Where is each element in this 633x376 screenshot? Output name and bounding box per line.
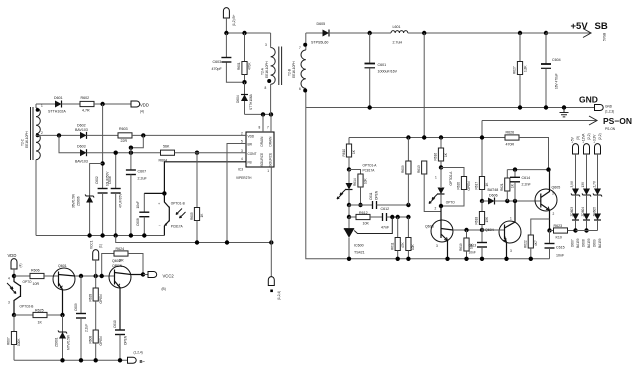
svg-text:2: 2 [553, 212, 555, 216]
resistor R621 [500, 170, 515, 201]
svg-text:R608: R608 [88, 336, 92, 344]
node [396, 215, 400, 219]
node [422, 135, 426, 139]
svg-text:1: 1 [435, 176, 437, 180]
svg-text:VDD: VDD [140, 103, 149, 108]
resistor R617 [475, 177, 490, 202]
svg-text:10K: 10K [363, 222, 370, 226]
node [573, 228, 577, 232]
zener ZD603 [570, 180, 580, 216]
opto OPTO1-B phototransistor [158, 193, 186, 235]
diode D609 [592, 214, 602, 249]
diode D604 [236, 82, 253, 114]
svg-text:OPEN: OPEN [99, 336, 103, 346]
svg-text:D605: D605 [317, 22, 326, 26]
svg-text:VDD: VDD [248, 134, 255, 138]
node [445, 257, 449, 261]
connector GND (1,2,3) [579, 95, 614, 114]
resistor R611 [390, 217, 404, 259]
svg-text:L601: L601 [393, 25, 401, 29]
svg-text:R614: R614 [353, 178, 357, 186]
svg-text:Q605: Q605 [552, 186, 561, 190]
svg-text:C606: C606 [108, 176, 112, 184]
svg-text:C610: C610 [113, 320, 117, 328]
svg-text:OPTO: OPTO [23, 280, 32, 284]
svg-text:1: 1 [267, 169, 269, 173]
resistor R622 [523, 219, 549, 259]
svg-text:GND: GND [579, 95, 598, 105]
node [347, 167, 351, 171]
resistor R628 [88, 276, 103, 330]
node [141, 133, 145, 137]
wire secondary GND rail [306, 107, 594, 109]
svg-text:R624: R624 [116, 247, 125, 251]
node [195, 151, 199, 155]
transistor Q603 [425, 206, 453, 259]
node [100, 102, 104, 106]
svg-text:4,7R: 4,7R [82, 109, 90, 113]
svg-text:R628: R628 [88, 294, 92, 302]
connector VCC2 [143, 272, 174, 292]
transistor Q601 [53, 264, 75, 315]
svg-text:5VSB: 5VSB [603, 33, 607, 41]
node [464, 257, 468, 261]
svg-text:FB: FB [248, 160, 252, 164]
svg-text:R618: R618 [475, 217, 479, 225]
svg-text:D606: D606 [489, 194, 498, 198]
svg-text:4: 4 [241, 157, 243, 161]
svg-text:2.2uF: 2.2uF [85, 324, 89, 332]
svg-text:8: 8 [265, 86, 267, 90]
wire B+ rail [226, 32, 270, 34]
node [129, 151, 133, 155]
svg-text:R620: R620 [457, 182, 461, 190]
svg-text:10nF: 10nF [469, 251, 476, 255]
resistor R619 [459, 230, 474, 259]
svg-text:VIPER27H: VIPER27H [236, 176, 252, 180]
node [225, 240, 229, 244]
node [544, 105, 548, 109]
svg-text:VCC2: VCC2 [163, 274, 175, 279]
svg-text:36V/0.5W: 36V/0.5W [72, 194, 76, 208]
node [439, 165, 443, 169]
node [518, 31, 522, 35]
node [390, 215, 394, 219]
node [480, 257, 484, 261]
node [562, 105, 566, 109]
resistor R626 [505, 131, 549, 170]
node [480, 135, 484, 139]
svg-text:R607: R607 [7, 337, 11, 345]
node [242, 80, 246, 84]
resistor R608 [88, 330, 103, 360]
svg-text:+12VA: +12VA [581, 133, 585, 143]
node [368, 31, 372, 35]
node [368, 105, 372, 109]
wire IC3 source pin1 down to connector [270, 167, 272, 277]
node [513, 167, 517, 171]
svg-text:(1): (1) [99, 244, 103, 248]
node [584, 228, 588, 232]
node FB [162, 191, 166, 195]
svg-text:R626: R626 [506, 131, 515, 135]
connector VDD (4) [131, 101, 149, 114]
capacitor C612 series [381, 207, 409, 230]
svg-text:(B): (B) [162, 287, 166, 291]
diode D603 [59, 135, 161, 163]
svg-text:BAV103: BAV103 [75, 160, 88, 164]
svg-text:D604: D604 [236, 95, 240, 103]
node [406, 257, 410, 261]
svg-text:D608: D608 [581, 239, 585, 247]
wire zener bottoms row [576, 230, 598, 232]
transformer core [279, 47, 282, 86]
resistor R627 [513, 33, 528, 108]
node [269, 112, 273, 116]
diode D607 [570, 214, 580, 249]
capacitor C614 [510, 170, 531, 201]
svg-text:GND: GND [605, 105, 613, 109]
node [406, 215, 410, 219]
resistor R609 divider top [401, 138, 411, 206]
node [529, 257, 533, 261]
node [406, 203, 410, 207]
svg-text:15K: 15K [485, 216, 489, 223]
svg-text:5: 5 [241, 140, 243, 144]
svg-text:100K: 100K [17, 338, 21, 346]
connector VDD (4) lower [8, 253, 23, 276]
svg-text:47nF: 47nF [381, 226, 390, 230]
opto OPTO2-B phototransistor [7, 276, 33, 315]
node [57, 133, 61, 137]
resistor R624 [102, 247, 143, 276]
opto OPTO1-A LED [337, 164, 377, 206]
svg-text:R625: R625 [35, 309, 44, 313]
node [358, 203, 362, 207]
svg-text:EE16-10PH: EE16-10PH [292, 60, 296, 78]
node [60, 313, 64, 317]
svg-text:470pF: 470pF [212, 67, 223, 71]
svg-text:BA159: BA159 [587, 238, 591, 248]
svg-text:C608: C608 [136, 218, 140, 226]
transformer T2-A primary [261, 33, 276, 114]
node [269, 240, 273, 244]
svg-text:R609: R609 [401, 165, 405, 173]
svg-text:SOURCE: SOURCE [260, 153, 264, 167]
svg-text:R602: R602 [81, 96, 90, 100]
svg-text:R610: R610 [342, 149, 346, 157]
wire pin2 row [36, 134, 80, 136]
wire upper bus [507, 169, 548, 171]
svg-text:K10: K10 [556, 236, 562, 240]
svg-text:D603: D603 [77, 145, 86, 149]
capacitor C609 [74, 276, 89, 360]
svg-text:IC3: IC3 [238, 168, 243, 172]
svg-text:Q604: Q604 [485, 228, 494, 232]
svg-text:(2,2): (2,2) [587, 133, 591, 140]
svg-text:10K: 10K [411, 243, 415, 250]
svg-text:R605: R605 [190, 212, 194, 220]
svg-text:R601: R601 [237, 62, 241, 70]
svg-text:OPEN: OPEN [99, 294, 103, 304]
svg-text:D601: D601 [54, 96, 63, 100]
zener chain +12VA [581, 133, 591, 189]
node [114, 233, 118, 237]
svg-text:7: 7 [267, 126, 269, 130]
resistor R623 [550, 224, 576, 240]
svg-text:M7V/0.5W: M7V/0.5W [67, 335, 71, 350]
svg-text:C615: C615 [556, 246, 565, 250]
resistor R620 OPEN [441, 168, 471, 207]
wire row to Q602 [75, 275, 115, 277]
wire rail1 primary ground [36, 235, 164, 237]
svg-text:PC817A: PC817A [171, 224, 184, 228]
svg-text:C607: C607 [138, 170, 147, 174]
resistor R606 [14, 269, 59, 287]
node [79, 274, 83, 278]
svg-text:(4): (4) [140, 110, 144, 114]
svg-text:13V: 13V [581, 181, 585, 188]
svg-text:1,8K: 1,8K [524, 65, 528, 72]
svg-text:SB: SB [595, 21, 608, 32]
svg-text:PS-ON: PS-ON [605, 127, 616, 131]
svg-text:STTH106A: STTH106A [249, 93, 253, 110]
svg-text:BR: BR [248, 143, 253, 147]
svg-text:R612: R612 [359, 211, 368, 215]
svg-text:(4): (4) [19, 264, 23, 268]
svg-text:47K: 47K [401, 241, 405, 248]
node [79, 358, 83, 362]
zener chain +3,3V [592, 133, 602, 188]
wire BR pin down [227, 144, 246, 243]
svg-text:EE16-10PH: EE16-10PH [265, 60, 269, 78]
svg-text:DRAIN: DRAIN [260, 136, 264, 147]
svg-text:3: 3 [552, 192, 554, 196]
svg-text:R603: R603 [119, 127, 128, 131]
svg-text:10K: 10K [364, 177, 368, 184]
svg-text:10R: 10R [33, 282, 40, 286]
svg-text:OPEN: OPEN [124, 335, 128, 345]
wire feedback +5V rail [349, 137, 505, 139]
node [480, 228, 484, 232]
wire +5V sense column [423, 33, 425, 138]
svg-text:R621: R621 [500, 183, 504, 191]
svg-text:C602: C602 [95, 176, 99, 184]
wire C608 top to FB node [144, 192, 164, 194]
svg-text:10nF: 10nF [136, 201, 140, 208]
diode D606 BAT48 [482, 188, 541, 205]
resistor R607 [7, 315, 22, 360]
inductor L601 [391, 25, 546, 45]
node [544, 31, 548, 35]
svg-text:R616: R616 [434, 153, 438, 161]
svg-text:OPTO1-A: OPTO1-A [363, 164, 378, 168]
diode D601 [48, 96, 80, 114]
capacitor C613 [469, 230, 488, 259]
transistor Q604 [482, 201, 521, 259]
svg-text:47UF/35V: 47UF/35V [119, 193, 123, 208]
svg-text:−: − [159, 224, 161, 228]
zener chain +5V (3) [570, 136, 580, 188]
svg-text:2: 2 [41, 131, 43, 135]
svg-text:2.2uF: 2.2uF [138, 177, 148, 181]
svg-text:CONT: CONT [248, 152, 257, 156]
ground symbol [560, 108, 569, 117]
node [546, 167, 550, 171]
svg-text:C614: C614 [522, 176, 531, 180]
svg-text:STPS5L60: STPS5L60 [311, 41, 328, 45]
svg-text:+3,3V: +3,3V [592, 134, 596, 143]
svg-text:(2,2): (2,2) [598, 133, 602, 140]
svg-text:Q601: Q601 [58, 264, 67, 268]
resistor R612 [347, 205, 383, 226]
svg-text:+5V: +5V [571, 21, 589, 32]
connector VCC1 [90, 240, 103, 276]
svg-text:1K: 1K [38, 321, 43, 325]
node [100, 161, 104, 165]
capacitor C611 OPEN series [349, 190, 408, 209]
resistor R613 lower [406, 217, 415, 259]
node [12, 274, 16, 278]
node [505, 199, 509, 203]
svg-text:TS421: TS421 [354, 251, 365, 255]
resistor R605 [190, 153, 204, 243]
node [242, 31, 246, 35]
resistor R614 parallel LED [349, 170, 368, 206]
node [439, 135, 443, 139]
node [129, 233, 133, 237]
transistor Q602 OPEN [109, 259, 143, 330]
capacitor C601 1000uF [365, 33, 398, 108]
svg-text:4K7: 4K7 [534, 240, 538, 246]
svg-text:8: 8 [259, 126, 261, 130]
svg-text:R611: R611 [390, 242, 394, 250]
wire [36, 103, 55, 105]
node [195, 240, 199, 244]
svg-text:C603: C603 [213, 60, 222, 64]
svg-text:2,7V: 2,7V [592, 180, 596, 187]
capacitor C608 [136, 193, 149, 235]
svg-text:Q603: Q603 [425, 225, 434, 229]
svg-text:(1,2,4): (1,2,4) [277, 291, 281, 300]
svg-text:R623: R623 [554, 224, 563, 228]
node [60, 358, 64, 362]
node [261, 112, 265, 116]
node [129, 146, 133, 150]
diode D605 [306, 22, 391, 45]
node [141, 272, 145, 276]
svg-text:3: 3 [8, 301, 10, 305]
svg-text:(1,2) B+: (1,2) B+ [232, 14, 236, 26]
resistor R602 [80, 96, 131, 113]
capacitor C604 [541, 33, 561, 108]
node [406, 135, 410, 139]
transformer core [31, 107, 34, 160]
svg-text:(1,2,4): (1,2,4) [134, 351, 143, 355]
svg-text:B−: B− [140, 359, 146, 364]
node [94, 358, 98, 362]
svg-text:4: 4 [8, 277, 10, 281]
node [464, 228, 468, 232]
node [100, 233, 104, 237]
zener ZD601 [55, 315, 71, 360]
svg-text:1000uF/16V: 1000uF/16V [378, 70, 398, 74]
node [518, 105, 522, 109]
node [87, 233, 91, 237]
svg-text:3: 3 [265, 43, 267, 47]
node [347, 257, 351, 261]
svg-text:(3): (3) [576, 136, 580, 140]
svg-text:(1,2,3): (1,2,3) [605, 110, 614, 114]
op IC3 VIPER27H box [236, 114, 274, 180]
resistor R601 [237, 33, 252, 82]
svg-text:2: 2 [435, 207, 437, 211]
svg-text:OPEN: OPEN [467, 181, 471, 191]
svg-text:22R: 22R [121, 139, 128, 143]
wire rail3 secondary low rail [306, 108, 550, 259]
node [513, 199, 517, 203]
svg-text:D602: D602 [77, 124, 86, 128]
svg-text:C609: C609 [74, 303, 78, 311]
svg-text:R613: R613 [417, 165, 421, 173]
node [347, 203, 351, 207]
connector B+ (1,2) [223, 8, 236, 33]
node [224, 31, 228, 35]
svg-text:C613: C613 [469, 244, 477, 248]
capacitor C602 [95, 104, 110, 236]
node [94, 274, 98, 278]
resistor R618 [475, 201, 490, 230]
svg-text:BA159: BA159 [598, 238, 602, 248]
svg-text:56K: 56K [163, 144, 170, 148]
svg-text:1: 1 [510, 217, 512, 221]
transistor Q605 [535, 170, 560, 231]
svg-text:+5V: +5V [570, 136, 574, 143]
svg-text:DRAIN: DRAIN [269, 136, 273, 147]
zener ZD606 [72, 164, 103, 236]
svg-text:VDD: VDD [8, 253, 17, 258]
wire FB from IC [164, 162, 246, 194]
wire drain node [245, 113, 271, 115]
zener ZD604 [581, 181, 591, 217]
node [100, 274, 104, 278]
node [439, 204, 443, 208]
diode D602 [75, 124, 118, 139]
resistor R604 [159, 144, 247, 162]
capacitor C603 [212, 33, 245, 82]
svg-text:ZD601: ZD601 [55, 337, 59, 347]
node [142, 233, 146, 237]
svg-text:VCC1: VCC1 [90, 240, 94, 249]
svg-text:ZD606: ZD606 [77, 196, 81, 206]
svg-text:3,9V: 3,9V [570, 180, 574, 187]
capacitor C615 [545, 231, 565, 259]
transformer T2-C aux winding [21, 104, 44, 236]
svg-text:6: 6 [299, 87, 301, 91]
svg-text:C601: C601 [378, 63, 387, 67]
svg-text:3: 3 [510, 249, 512, 253]
wire PS-ON column [481, 121, 483, 177]
wire Q603 collector row [453, 229, 505, 231]
wire jog VDD row to C607 node [131, 135, 143, 147]
resistor R625 [14, 309, 63, 325]
PS-ON arrow line [482, 116, 632, 131]
svg-text:IC600: IC600 [354, 244, 364, 248]
svg-text:2.2nF: 2.2nF [522, 183, 532, 187]
wire rail4 [14, 359, 128, 361]
svg-text:470R: 470R [506, 143, 515, 147]
capacitor C606 [108, 153, 123, 236]
